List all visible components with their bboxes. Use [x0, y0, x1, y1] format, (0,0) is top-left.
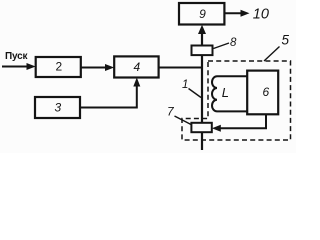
block 3 [35, 97, 80, 118]
svg-text:10: 10 [253, 7, 269, 23]
wire: block 6 down and left into box 7 (arrow) [212, 114, 266, 132]
svg-text:4: 4 [133, 60, 140, 74]
block 9 [179, 3, 224, 25]
svg-text:2: 2 [55, 60, 62, 74]
coil L [212, 76, 247, 111]
dashed enclosure 5 [182, 61, 291, 140]
svg-text:1: 1 [182, 79, 188, 91]
block 6 [247, 71, 278, 115]
block 4 [114, 56, 158, 77]
wire: block 4 to vertical bus [159, 67, 203, 69]
svg-text:8: 8 [230, 37, 237, 49]
block 2 [36, 57, 81, 77]
sensor box 7 on bus [191, 123, 211, 132]
wire: block 2 to block 4 [81, 64, 114, 71]
wire: block 9 output arrow to 10 [224, 10, 249, 17]
leader line to label 5 [264, 47, 280, 62]
leader line to label 7 [175, 116, 192, 125]
sensor box 8 on bus [192, 46, 213, 56]
svg-text:5: 5 [282, 33, 290, 48]
node 1: vertical bus line [201, 54, 203, 150]
wire: block 3 to block 4 (up arrow) [80, 78, 140, 108]
wire: start arrow into block 2 [2, 63, 36, 70]
svg-text:L: L [222, 85, 229, 100]
svg-text:6: 6 [262, 85, 269, 99]
svg-text:Пуск: Пуск [5, 51, 28, 62]
leader line to label 1 [189, 89, 202, 98]
svg-text:9: 9 [199, 7, 206, 21]
svg-text:3: 3 [54, 101, 61, 115]
leader line to label 8 [214, 43, 230, 49]
wire: bus up into block 9 (arrow) [198, 25, 206, 47]
